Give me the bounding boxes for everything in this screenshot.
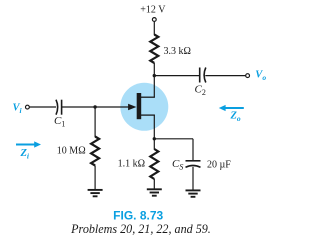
wire RS to ground [153, 179, 155, 189]
svg-text:+12 V: +12 V [140, 4, 166, 15]
transistor Q1 JFET highlight circle [120, 83, 168, 131]
wire Vi to C1 [30, 106, 57, 108]
ground below RS [147, 189, 162, 195]
wire source node to CS branch [154, 139, 193, 161]
resistor RS 1.1 kOhm [118, 149, 159, 179]
ground below CS [186, 190, 201, 196]
wire C1 to gate arrow [62, 106, 129, 108]
svg-text:10 MΩ: 10 MΩ [57, 145, 86, 156]
wire supply to RD [153, 22, 155, 35]
svg-text:3.3 kΩ: 3.3 kΩ [164, 46, 191, 57]
wire drain node to C2 [154, 75, 199, 77]
gate arrowhead into JFET [128, 104, 136, 111]
wire source stub down to source node [153, 115, 155, 139]
transistor Q1 JFET body [137, 93, 155, 119]
node source junction [153, 137, 156, 140]
capacitor CS 20 uF [172, 158, 231, 172]
svg-text:1.1 kΩ: 1.1 kΩ [118, 158, 145, 169]
wire C2 to output terminal [205, 75, 245, 77]
svg-text:20 µF: 20 µF [207, 159, 231, 170]
output terminal Vo [246, 70, 267, 83]
supply terminal +12 V [140, 4, 166, 21]
resistor RG 10 MOhm [57, 137, 99, 166]
capacitor C1 [54, 100, 65, 129]
svg-text:FIG. 8.73: FIG. 8.73 [113, 208, 163, 222]
input terminal Vi [13, 102, 30, 115]
wire source node down to RS [153, 139, 155, 150]
capacitor C2 [195, 68, 206, 98]
impedance Zi arrow [16, 141, 41, 160]
wire CS to ground [192, 167, 194, 190]
resistor RD 3.3 kOhm [150, 35, 191, 64]
wire RG to ground [94, 166, 96, 190]
svg-text:Problems 20, 21, 22, and 59.: Problems 20, 21, 22, and 59. [70, 222, 211, 236]
ground below RG [88, 190, 103, 196]
node gate junction [93, 105, 96, 108]
wire RD to drain node [153, 63, 155, 97]
impedance Zo arrow [219, 105, 244, 123]
node drain junction [153, 74, 156, 77]
wire gate node down to RG [94, 107, 96, 137]
